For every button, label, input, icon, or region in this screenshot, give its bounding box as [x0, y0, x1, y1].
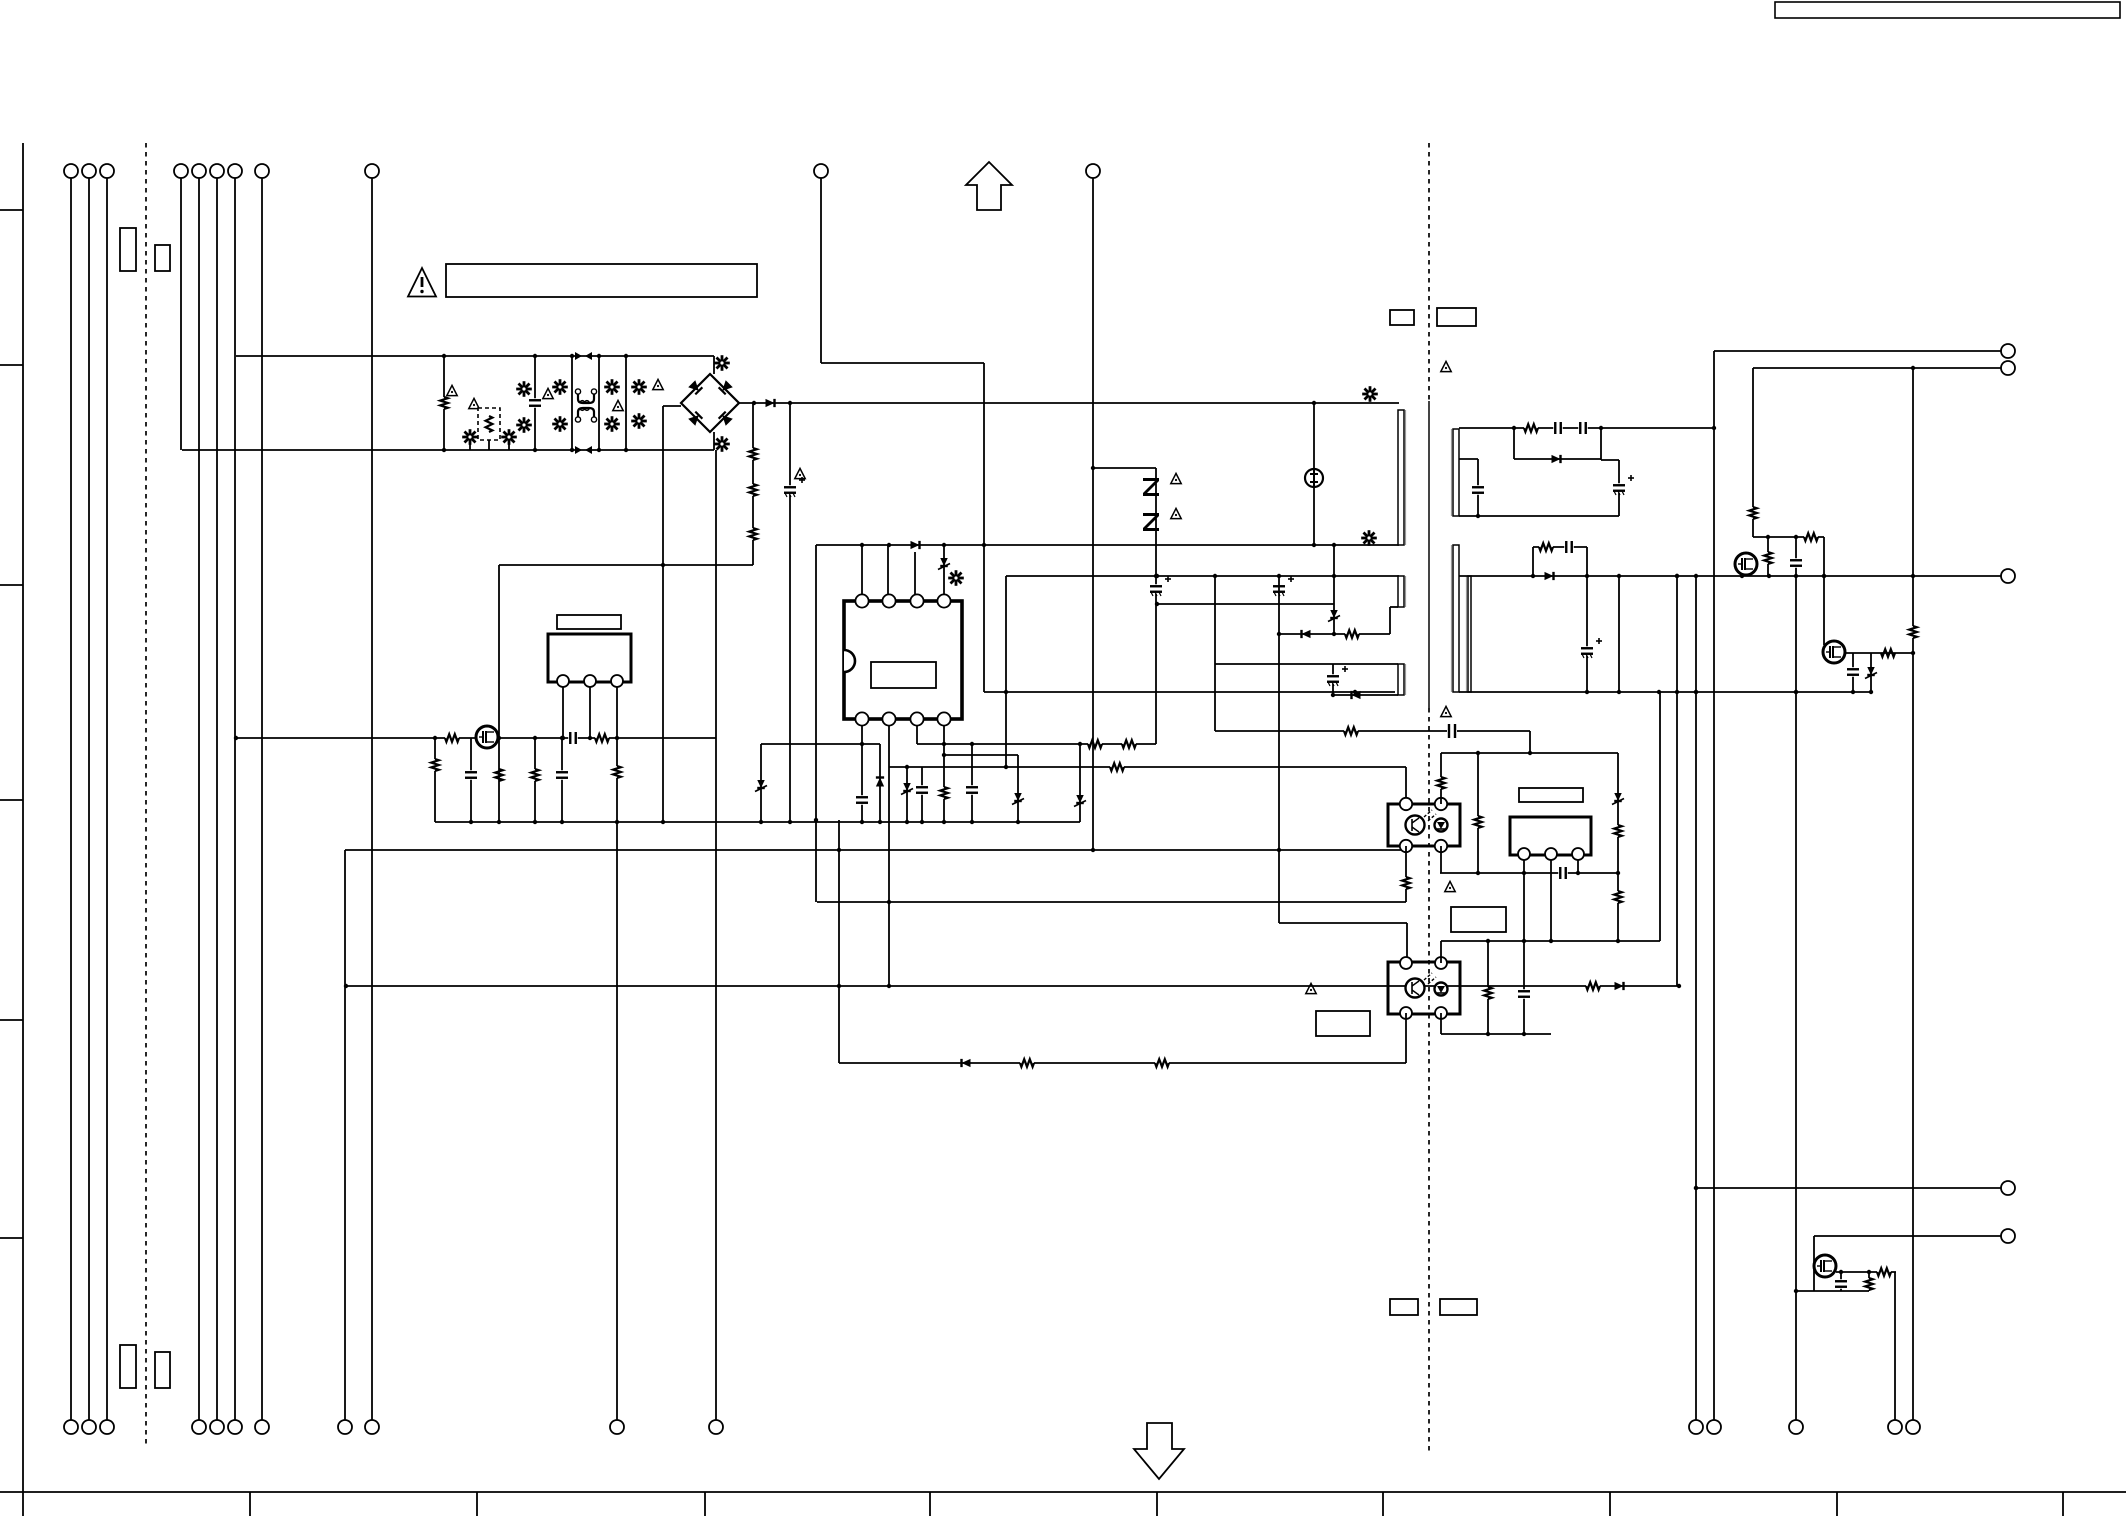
hot bus y850	[345, 849, 1406, 851]
low side MOSFET Q953	[1814, 1255, 1836, 1277]
PC902 hot lower pin wire	[1405, 1013, 1407, 1063]
capacitor C901 across line	[534, 356, 536, 450]
optocoupler PC902 box	[1388, 962, 1460, 1014]
resistor x1768	[1767, 537, 1769, 576]
wire x617 pin3 down to bottom	[616, 687, 618, 1420]
output wire y1188	[1696, 1187, 2001, 1189]
IC901 pin4 lower resistor	[943, 725, 945, 822]
wire y755	[944, 754, 1018, 756]
diode loop y459	[1513, 428, 1515, 459]
wire x821 from top pin	[820, 178, 822, 363]
transformer secondary bar 2 step	[1468, 576, 1471, 692]
star marks C901	[516, 388, 532, 391]
aux winding lower wire y695	[1333, 694, 1398, 696]
IC901 top pins	[855, 594, 868, 607]
connector CN2 pins top	[174, 164, 188, 178]
zener x1080	[1079, 744, 1081, 822]
startup resistor chain x753	[752, 403, 754, 565]
wire x984 down	[983, 363, 985, 692]
bridge rectifier D901	[681, 374, 739, 432]
common mode choke L901	[571, 356, 573, 450]
hot ground bus y822	[435, 821, 1080, 823]
resistor y537	[1804, 532, 1818, 543]
AC line bottom wire	[182, 449, 714, 451]
label rect top small 1	[120, 228, 136, 271]
Y-capacitor across isolation	[1447, 724, 1457, 738]
wire x1660	[1659, 692, 1661, 941]
zener x1018	[1017, 755, 1019, 822]
transformer aux bar 3	[1398, 664, 1404, 695]
spark gap Z1	[1143, 478, 1159, 496]
primary loop rect top y576	[1006, 575, 1399, 577]
cap y873	[1558, 867, 1568, 879]
feedback wire y1063	[839, 1062, 1406, 1064]
MOSFET gate drive wire y738	[236, 737, 716, 739]
wire x839	[838, 820, 840, 1063]
wire y744 right	[917, 743, 1156, 745]
resistor y1272	[1877, 1267, 1891, 1278]
hot wire y923	[1279, 922, 1407, 924]
small rect label left of transformer	[1390, 310, 1414, 325]
wire y653	[1845, 652, 1877, 654]
connector pin top x1093	[1086, 164, 1100, 178]
components row below gate wire	[434, 738, 436, 822]
wire y468 to spark gaps	[1093, 467, 1156, 469]
page frame bottom border	[0, 1491, 2126, 1493]
resistor on y986	[1586, 981, 1600, 992]
resistor on y1063 B	[1155, 1058, 1169, 1069]
resistor on y1063 A	[1020, 1058, 1034, 1069]
wire x181 to AC filter bottom	[180, 178, 182, 450]
secondary snubber wire y428	[1459, 427, 1714, 429]
isolation boundary dashed line right upper	[1428, 143, 1430, 401]
gate wire y537	[1753, 536, 1824, 538]
label box PC902	[1316, 1011, 1370, 1036]
vcc wire y767	[889, 766, 1406, 768]
zener x1618	[1617, 753, 1619, 941]
transformer aux bar 1	[1398, 576, 1404, 607]
diode x880	[879, 744, 881, 822]
long wire x372	[371, 178, 373, 1420]
transformer core line	[1428, 401, 1430, 708]
IC903 pins	[1518, 848, 1530, 860]
wire x1619 to gnd	[1618, 610, 1620, 692]
bridge minus wire	[663, 405, 681, 407]
reference IC903 label	[1519, 788, 1583, 802]
up block arrow	[966, 162, 1012, 210]
cold wire y941	[1441, 940, 1660, 942]
electrolytic x1279	[1273, 584, 1285, 594]
IC901 supply wire y545	[816, 544, 1399, 546]
electrolytic x1619	[1601, 459, 1619, 461]
wire x816 down	[815, 545, 817, 902]
warning triangle transformer bottom	[1441, 706, 1451, 716]
wire x1696	[1695, 576, 1697, 1420]
cap y428 A	[1553, 422, 1563, 434]
transformer T901 primary bar	[1398, 410, 1404, 545]
wire y363	[821, 362, 984, 364]
regulator IC902 on heatsink	[548, 634, 631, 682]
isolation boundary dashed line left	[145, 143, 147, 1445]
output wire y351	[1714, 350, 2001, 352]
snubber cap x790 electrolytic	[789, 403, 791, 822]
diode on y986	[1615, 982, 1624, 990]
cap x1796	[1795, 537, 1797, 576]
feedback resistor pair	[1088, 739, 1102, 750]
IC901 label box	[871, 662, 936, 688]
warning triangle near fuse	[469, 398, 479, 408]
primary loop bottom y692	[984, 691, 1395, 693]
warning triangle near R901	[447, 385, 457, 395]
sync MOSFET Q952	[1823, 641, 1845, 663]
primary loop left x1006	[1005, 576, 1007, 767]
secondary gnd bus y692	[1459, 691, 1871, 693]
IC901 pin3 lower wire	[916, 725, 918, 744]
electrolytic cap x1156	[1150, 584, 1162, 594]
output wire y368	[1753, 367, 2001, 369]
long wire x262	[261, 178, 263, 1420]
connector pin top x372	[365, 164, 379, 178]
long wire x235	[234, 178, 236, 1420]
inline connector arrows top wire	[575, 352, 582, 360]
cap x1841	[1840, 1272, 1842, 1291]
wire bridge minus down x663	[662, 406, 664, 822]
wire x1677 from secondary gnd	[1676, 576, 1678, 986]
small rect label bottom left of transformer	[1390, 1299, 1418, 1315]
vertical wire x499 to gate line	[498, 565, 500, 738]
stars right filter	[631, 386, 647, 389]
long wire x199	[198, 178, 200, 1420]
label rect bottom small 1	[120, 1345, 136, 1388]
capacitor across line x626	[625, 356, 627, 450]
label box cold side	[1451, 907, 1506, 932]
regulator IC902 label box	[557, 615, 621, 629]
star on supply near transformer	[1361, 537, 1377, 540]
electrolytic x1587	[1586, 576, 1588, 692]
spark gap line x1156	[1155, 468, 1157, 744]
main secondary rail y576	[1459, 575, 2001, 577]
sync MOSFET Q951	[1735, 553, 1757, 575]
IC901 pin1 lower wire	[861, 725, 863, 822]
IC902 pin 1	[557, 675, 569, 687]
aux diode wire y634	[1279, 633, 1390, 635]
small rect label right of transformer	[1437, 308, 1476, 326]
stars around choke	[552, 386, 568, 389]
label rect top small 2	[155, 245, 170, 271]
cap x1853	[1852, 653, 1854, 692]
long wire x89	[88, 178, 90, 1420]
PC902 pins	[1400, 957, 1412, 969]
switching MOSFET Q901	[476, 726, 498, 748]
cap x1524	[1523, 873, 1525, 1034]
warning triangle near PC902	[1306, 983, 1316, 993]
page frame left border	[22, 143, 24, 1516]
warning triangle choke	[543, 388, 553, 398]
connector CN1 pins top	[64, 164, 78, 178]
wire x1551	[1550, 860, 1552, 941]
Y-cap wire y731	[1215, 730, 1530, 732]
IC902 pin 2	[584, 675, 596, 687]
secondary wire y516	[1459, 515, 1619, 517]
diode on supply wire	[911, 541, 920, 549]
IC901 pin wires top	[861, 545, 863, 595]
warning triangle right of PC901	[1445, 881, 1455, 891]
rectifier diode y576	[1545, 572, 1554, 580]
cap x922	[921, 767, 923, 822]
PC901 pins	[1400, 798, 1412, 810]
cap y428 B	[1578, 422, 1588, 434]
diode y695	[1352, 691, 1361, 699]
PC901 cold lower pin wire	[1440, 846, 1442, 873]
isolation boundary dashed line right lower	[1428, 708, 1430, 1455]
resistor x1488	[1487, 941, 1489, 1034]
electrolytic x1619 lower	[1618, 576, 1620, 610]
warning triangle transformer top	[1441, 361, 1451, 371]
star mark fuse left	[462, 436, 478, 439]
wire x1279	[1278, 576, 1280, 923]
wire x1714	[1713, 351, 1715, 1420]
diode y634	[1302, 630, 1311, 638]
snubber above diode	[1532, 547, 1534, 576]
wire y565 chain to mosfet drain	[499, 564, 753, 566]
wire x1407 to opto2	[1406, 923, 1408, 963]
PC901 light arrows	[1424, 810, 1432, 817]
Q953 source wire y1272	[1836, 1271, 1896, 1273]
resistor R901 across line	[443, 356, 445, 450]
IC901 pin2 lower wire	[888, 725, 890, 986]
cap x972	[971, 744, 973, 822]
long wire x107	[106, 178, 108, 1420]
small rect label bottom right of transformer	[1440, 1299, 1477, 1315]
resistor x1753	[1752, 368, 1754, 537]
zener x1871	[1870, 653, 1872, 692]
transformer secondary bar 2	[1453, 545, 1459, 692]
cap x1478	[1459, 458, 1478, 460]
electrolytic x1333	[1332, 664, 1334, 695]
IC902 pin 3	[611, 675, 623, 687]
main DC+ wire y403	[739, 402, 1399, 404]
aux winding wire y664	[1215, 663, 1398, 665]
Q953 bottom wire y1291	[1796, 1290, 1869, 1292]
PC902 led	[1435, 983, 1448, 996]
down block arrow	[1134, 1423, 1184, 1479]
connector pin top x821	[814, 164, 828, 178]
control IC901 box	[844, 601, 962, 719]
resistor y653	[1881, 648, 1895, 659]
star primary top	[1362, 393, 1378, 396]
resistor series y738	[595, 733, 609, 744]
long wire x217	[216, 178, 218, 1420]
ground wire y986	[346, 985, 1679, 987]
capacitor series y738	[568, 732, 578, 744]
hot feedback wire y902	[817, 901, 1406, 903]
spark gap Z2	[1143, 513, 1159, 531]
PC901 hot pin resistor	[1405, 846, 1407, 902]
wire x1093 from top	[1092, 178, 1094, 850]
star below bridge	[714, 443, 730, 446]
resistor x1913	[1912, 368, 1914, 1420]
diode on y1063	[962, 1059, 971, 1067]
resistor on gate wire	[445, 733, 459, 744]
wire x1406 to opto1	[1405, 767, 1407, 804]
output wire y1236	[1814, 1235, 2001, 1237]
wire y744 left	[761, 743, 880, 745]
resistor on y767	[1110, 762, 1124, 773]
warning triangle Z2	[1171, 508, 1181, 518]
PC902 transistor	[1406, 979, 1425, 998]
warning triangle near C903	[795, 468, 805, 478]
warning triangle Z1	[1171, 473, 1181, 483]
connector pins bottom left	[64, 1420, 78, 1434]
star above bridge	[714, 362, 730, 365]
warning triangle with note box	[408, 268, 436, 297]
optocoupler PC901 box	[1388, 804, 1460, 846]
PC901 transistor	[1406, 816, 1425, 835]
aux bar step wire	[1389, 607, 1391, 634]
wire x1824 gate	[1823, 537, 1825, 645]
low side MOSFET Q953 gate wire	[1813, 1236, 1815, 1291]
connector pins bottom right	[1689, 1420, 1703, 1434]
wire x1441 lower	[1440, 941, 1442, 963]
resistor x1869	[1868, 1272, 1870, 1291]
long wire x716 to bottom	[715, 450, 717, 1420]
PC901 led	[1435, 819, 1448, 832]
resistor y731	[1344, 726, 1358, 737]
connector pins right edge	[2001, 344, 2015, 358]
cold wire y1034	[1441, 1033, 1551, 1035]
fuse F901 dashed box	[478, 408, 500, 440]
wire x1895	[1894, 1272, 1896, 1420]
label rect bottom small 2	[155, 1352, 170, 1388]
transformer secondary bar 1	[1453, 429, 1459, 516]
resistor y634	[1345, 629, 1359, 640]
bridge AC stubs	[713, 356, 715, 374]
title block	[1775, 2, 2120, 18]
resistor x1441 to opto	[1440, 753, 1442, 804]
cold vcc wire y753	[1441, 752, 1618, 754]
warning triangle right filter	[653, 379, 663, 389]
wire y604	[1157, 603, 1334, 605]
wire x1215	[1214, 576, 1216, 731]
PC902 light arrows	[1424, 973, 1432, 980]
resistor y428	[1524, 423, 1538, 434]
zener string x1334	[1333, 545, 1335, 632]
zener x907	[906, 767, 908, 822]
reference IC903 box	[1510, 817, 1591, 855]
diode D902 on DC rail	[766, 399, 775, 407]
cold wire y873	[1440, 872, 1618, 874]
long wire x71	[70, 178, 72, 1420]
zener to pin4 with star	[943, 545, 945, 595]
spark gap across primary	[1313, 403, 1315, 545]
long wire x345	[344, 850, 346, 1420]
star mark fuse right	[501, 436, 517, 439]
resistor x1478	[1477, 753, 1479, 873]
IC901 bottom pins	[855, 712, 868, 725]
zener x761	[760, 744, 762, 822]
AC line top wire	[236, 355, 714, 357]
wire x1796 down	[1795, 576, 1797, 1420]
